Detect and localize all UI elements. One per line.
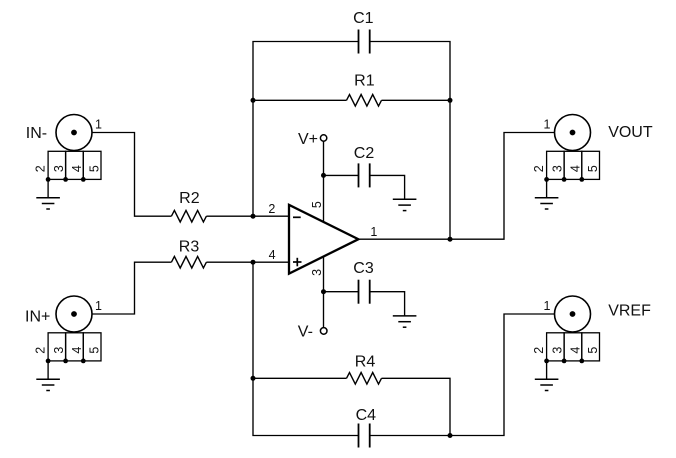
wire C4 right to VREF (370, 314, 573, 436)
svg-text:5: 5 (310, 201, 324, 208)
capacitor C2 (354, 145, 375, 187)
junction dots (251, 98, 453, 438)
wire C2 left lead (324, 174, 359, 176)
wire C1 top-left L: feedback node column (253, 42, 359, 217)
svg-text:4: 4 (70, 165, 84, 172)
wire J4 VREF shield to ground (546, 361, 548, 379)
svg-text:1: 1 (95, 299, 102, 313)
wire J1 IN- shield to ground (47, 179, 49, 197)
capacitor C4 (356, 407, 377, 448)
wire J3 VOUT shield to ground (546, 179, 548, 197)
resistor R4 (347, 354, 382, 385)
svg-text:2: 2 (34, 347, 48, 354)
op-amp V+ terminal circle (320, 135, 326, 141)
connector J2 IN+ circle pin 1 (56, 296, 92, 332)
svg-text:C2: C2 (354, 145, 375, 162)
svg-text:4: 4 (269, 248, 276, 262)
wire C3 right lead to ground (370, 292, 405, 316)
wire output pin1 to VOUT (357, 133, 573, 240)
svg-text:V+: V+ (298, 131, 318, 148)
svg-text:3: 3 (551, 347, 565, 354)
ground (J2 IN+ shield) (36, 379, 60, 390)
op-amp non-inverting input mark + (293, 258, 302, 267)
svg-text:2: 2 (532, 347, 546, 354)
svg-text:3: 3 (52, 347, 66, 354)
svg-text:V-: V- (298, 324, 313, 341)
svg-text:5: 5 (88, 347, 102, 354)
connector J2 IN+ shield boxes pins 2-5 (46, 333, 101, 364)
ground (J4 VREF shield) (535, 379, 559, 390)
connector J1 IN- circle pin 1 (56, 115, 92, 151)
svg-text:1: 1 (544, 118, 551, 132)
svg-text:2: 2 (268, 202, 275, 216)
svg-text:2: 2 (532, 165, 546, 172)
svg-text:4: 4 (568, 165, 582, 172)
connector J3 VOUT circle pin 1 (555, 115, 591, 151)
svg-text:IN-: IN- (26, 125, 47, 142)
svg-text:3: 3 (52, 165, 66, 172)
connector J3 VOUT pin labels 2 3 4 5 (532, 165, 600, 172)
connector J2 IN+ pin labels 2 3 4 5 (34, 347, 102, 354)
ground (C2) (393, 199, 417, 210)
ground (C3) (393, 316, 417, 327)
svg-text:3: 3 (551, 165, 565, 172)
wire R3 to op-amp pin 4 (206, 261, 289, 263)
svg-text:4: 4 (568, 347, 582, 354)
connector J4 VREF pin labels 2 3 4 5 (532, 347, 600, 354)
wire R1 right lead (382, 99, 451, 101)
wire IN+ pin1 to R3 (74, 262, 171, 314)
connector J4 VREF shield boxes pins 2-5 (544, 333, 599, 364)
svg-text:C4: C4 (356, 407, 377, 424)
svg-text:C3: C3 (353, 260, 374, 277)
svg-text:1: 1 (95, 118, 102, 132)
svg-text:R2: R2 (179, 190, 200, 207)
wire R1 left lead (253, 99, 347, 101)
svg-text:2: 2 (34, 165, 48, 172)
svg-text:5: 5 (586, 347, 600, 354)
wire J2 IN+ shield to ground (47, 361, 49, 379)
svg-text:IN+: IN+ (25, 308, 50, 325)
capacitor C1 (353, 10, 374, 54)
capacitor C3 (353, 260, 374, 304)
wire pin4 node down to R4/C4 left side (253, 262, 359, 435)
connector J1 IN- pin labels 2 3 4 5 (34, 165, 102, 172)
svg-text:VREF: VREF (608, 302, 651, 319)
svg-text:4: 4 (70, 347, 84, 354)
svg-text:C1: C1 (353, 10, 374, 27)
resistor R1 (347, 73, 382, 107)
svg-text:5: 5 (586, 165, 600, 172)
op-amp inverting input mark - (293, 216, 301, 218)
wire C2 right lead to ground (370, 175, 405, 199)
resistor R2 (171, 190, 206, 222)
resistor R3 (171, 239, 206, 269)
ground (J1 IN- shield) (36, 198, 60, 209)
svg-text:1: 1 (544, 299, 551, 313)
op-amp U1 triangle (289, 205, 358, 274)
wire R2 to op-amp pin 2 (206, 215, 289, 217)
svg-text:R3: R3 (179, 239, 200, 256)
wire R4 left lead (253, 377, 347, 379)
connector J4 VREF circle pin 1 (555, 296, 591, 332)
connector J1 IN- shield boxes pins 2-5 (46, 151, 101, 182)
svg-text:5: 5 (88, 165, 102, 172)
wire R4 right lead down to C4 (382, 378, 451, 435)
svg-text:VOUT: VOUT (608, 124, 653, 141)
ground (J3 VOUT shield) (535, 198, 559, 209)
svg-text:R1: R1 (354, 73, 375, 90)
wire V+ rail through op-amp (323, 141, 325, 327)
svg-text:R4: R4 (355, 354, 376, 371)
connector J3 VOUT shield boxes pins 2-5 (544, 151, 599, 182)
svg-text:1: 1 (370, 225, 377, 239)
op-amp V- terminal circle (320, 328, 327, 335)
wire C3 left lead (324, 291, 359, 293)
svg-text:3: 3 (310, 269, 324, 276)
wire IN- pin1 to R2 (74, 133, 171, 217)
wire C1 top-right L down to output node (370, 42, 450, 240)
